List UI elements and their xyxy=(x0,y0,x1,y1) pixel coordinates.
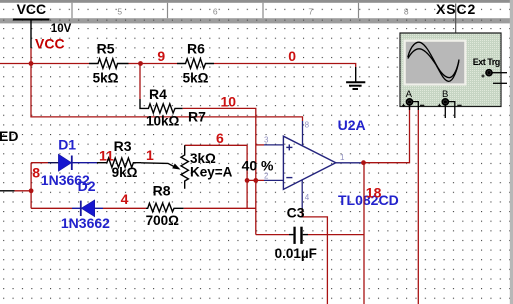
zone separator x=167.5 xyxy=(167,3,169,18)
svg-text:700Ω: 700Ω xyxy=(146,213,180,228)
diode D1 xyxy=(48,162,58,164)
node 9 junction xyxy=(138,61,143,66)
terminal Ext plus mark xyxy=(481,74,484,77)
wire output right to scope A xyxy=(364,106,410,163)
right border band xyxy=(510,0,513,304)
svg-text:R5: R5 xyxy=(97,41,115,57)
wire R4 right then down (node 10 vertical) xyxy=(183,108,256,234)
top border band 1 xyxy=(0,0,513,3)
svg-text:10V: 10V xyxy=(51,23,72,35)
wire pin4 jog to cap net xyxy=(302,209,327,304)
pin 4 stub xyxy=(301,180,303,209)
svg-text:R8: R8 xyxy=(153,182,171,198)
wire node9 down to R4 xyxy=(139,64,141,100)
wire R8 to node10 vertical xyxy=(184,207,256,209)
wire pot branch down to R8 row xyxy=(246,180,248,208)
svg-text:U2A: U2A xyxy=(338,117,366,133)
svg-text:40 %: 40 % xyxy=(242,158,274,174)
svg-text:11: 11 xyxy=(99,148,114,164)
potentiometer R7 body xyxy=(181,145,188,189)
wire to D2 xyxy=(31,207,72,209)
svg-text:8: 8 xyxy=(305,121,310,130)
zone separator x=72 xyxy=(71,3,73,18)
svg-text:VCC: VCC xyxy=(17,1,47,17)
svg-text:R4: R4 xyxy=(149,86,167,102)
terminal A plus mark xyxy=(402,104,405,107)
junction dot left (pot branch) xyxy=(245,178,250,183)
wire R6 to ground xyxy=(214,64,356,68)
svg-text:ED: ED xyxy=(0,128,18,144)
svg-text:XSC2: XSC2 xyxy=(436,1,476,17)
svg-text:6: 6 xyxy=(216,130,224,146)
svg-text:8: 8 xyxy=(404,6,409,16)
zone separator x=263 xyxy=(262,3,264,18)
wire node10 vertical to C3 xyxy=(256,234,289,236)
svg-text:3: 3 xyxy=(264,135,269,144)
oscilloscope screen xyxy=(404,40,467,86)
svg-text:9: 9 xyxy=(157,48,165,64)
wire to D1 xyxy=(31,162,48,164)
wire D2 to R8 xyxy=(103,207,146,209)
svg-text:9kΩ: 9kΩ xyxy=(112,165,138,180)
wire VCC down xyxy=(30,48,32,64)
svg-text:8: 8 xyxy=(32,164,40,180)
svg-text:6: 6 xyxy=(213,6,218,16)
junction node 18 xyxy=(361,160,366,165)
pot wiper arrow xyxy=(141,163,174,167)
terminal A minus stub xyxy=(413,102,418,110)
terminal A plus wire down xyxy=(409,105,411,110)
terminal Ext Trig xyxy=(486,70,492,76)
terminal A xyxy=(407,99,413,105)
oscilloscope XSC2 xyxy=(455,4,457,34)
svg-text:C3: C3 xyxy=(287,205,305,221)
potentiometer R7 wire box: top xyxy=(185,145,247,180)
junction at VCC rail xyxy=(29,61,34,66)
top border band 2 xyxy=(0,18,513,23)
zone separator x=358.5 xyxy=(358,3,360,18)
op-amp U2A triangle xyxy=(283,136,335,189)
svg-text:R3: R3 xyxy=(114,138,132,154)
svg-text:10kΩ: 10kΩ xyxy=(146,113,180,128)
minus mark xyxy=(286,177,292,179)
wire output down to bottom xyxy=(363,163,365,304)
junction node 8 xyxy=(29,188,34,193)
ground xyxy=(355,67,357,82)
svg-text:5kΩ: 5kΩ xyxy=(93,71,119,86)
svg-text:5: 5 xyxy=(117,6,122,16)
resistor R6 xyxy=(177,59,214,69)
wire pin2 left xyxy=(246,179,264,181)
grid dots row over band xyxy=(3,20,501,21)
wire branch to pin 3 xyxy=(256,144,264,146)
capacitor C3 xyxy=(293,227,295,244)
wire D-branch: left vertical xyxy=(30,163,32,209)
svg-text:Key=A: Key=A xyxy=(190,164,233,179)
svg-text:R7: R7 xyxy=(188,108,206,124)
svg-text:4: 4 xyxy=(305,193,310,202)
svg-text:4: 4 xyxy=(121,191,129,207)
wire node9 to R6 xyxy=(141,63,178,65)
svg-text:10: 10 xyxy=(221,94,237,110)
svg-text:0.01µF: 0.01µF xyxy=(275,246,317,261)
scope waveform xyxy=(408,42,459,77)
terminal B xyxy=(442,99,448,105)
resistor R8 xyxy=(146,203,184,212)
pin 3 stub xyxy=(264,144,283,146)
power VCC symbol xyxy=(13,19,49,21)
terminal B plus mark xyxy=(438,104,441,107)
svg-text:D2: D2 xyxy=(78,178,96,194)
pin 2 stub xyxy=(264,179,283,181)
svg-text:1N3662: 1N3662 xyxy=(61,215,110,231)
wire C3 right to output vertical xyxy=(308,234,364,236)
pin 1 stub xyxy=(336,162,362,164)
wire VCC rail down-right to opamp pin8 xyxy=(31,64,303,122)
svg-text:1: 1 xyxy=(340,153,345,162)
resistor R3 xyxy=(97,158,141,167)
svg-text:0: 0 xyxy=(288,48,296,64)
wire R5 to node 9 xyxy=(129,63,141,65)
capacitor C3 left lead xyxy=(289,234,293,236)
wire rail y=63.5 left to edge xyxy=(0,63,89,65)
svg-text:1: 1 xyxy=(146,147,154,163)
svg-text:R6: R6 xyxy=(187,41,205,57)
svg-text:5kΩ: 5kΩ xyxy=(183,71,209,86)
svg-text:7: 7 xyxy=(308,6,313,16)
svg-text:VCC: VCC xyxy=(35,36,65,52)
pin 8 stub xyxy=(302,121,304,146)
wire scope A- down to bottom xyxy=(417,110,419,304)
wire pin1 to node 18 xyxy=(362,162,364,164)
terminal B minus stub xyxy=(449,102,455,118)
plus mark xyxy=(286,146,292,148)
diode D2 xyxy=(72,207,81,209)
resistor R5 xyxy=(89,59,129,69)
svg-text:D1: D1 xyxy=(58,136,76,152)
svg-text:Ext Trg: Ext Trg xyxy=(473,57,500,67)
resistor R4 xyxy=(140,99,183,113)
junction dot right (node10 vertical) xyxy=(253,178,258,183)
wire from LED off-screen xyxy=(0,190,15,192)
terminal B plus wire xyxy=(444,105,446,118)
svg-text:18: 18 xyxy=(366,184,382,200)
